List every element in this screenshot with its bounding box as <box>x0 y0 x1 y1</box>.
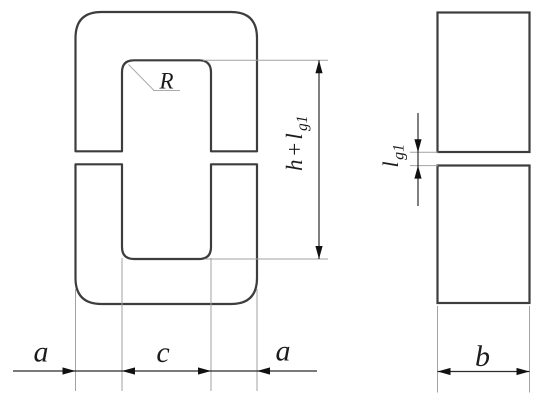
dimension line h+lg1 (vertical) <box>318 60 320 259</box>
extension line y=165.6 (gap bottom, side view) <box>410 165 438 167</box>
arrow at y=60.3 pointing up <box>315 60 322 73</box>
extension line y=259 (window bottom, to h+lg1 dim) <box>205 258 328 260</box>
extension line x=529.5 (side view right) <box>529 306 531 393</box>
extension line x=437.5 (side view left) <box>437 306 439 393</box>
extension line y=60.3 (window top, to h+lg1 dim) <box>203 59 328 61</box>
extension line y=152.2 (gap top, side view) <box>410 151 438 153</box>
arrow at x=437.5 pointing left <box>438 368 451 375</box>
arrow at x=529.5 pointing right <box>517 368 530 375</box>
svg-text:b: b <box>475 340 490 373</box>
svg-text:R: R <box>158 69 173 94</box>
extension line x=75.5 (outer left) <box>75 289 77 391</box>
svg-text:a: a <box>34 336 49 369</box>
dimension line b <box>438 371 530 373</box>
arrow at x=211 pointing right <box>198 367 211 374</box>
core half side view bottom rectangle <box>438 166 530 304</box>
arrow at x=257 pointing left <box>257 367 270 374</box>
core half E1 top (front view) <box>76 12 258 151</box>
extension line x=122 (inner left) <box>121 258 123 391</box>
arrow at y=259 pointing down <box>315 246 322 259</box>
leader underline for R <box>153 90 180 92</box>
core half E2 bottom (front view) <box>76 164 258 304</box>
arrow at x=122 pointing left <box>122 367 135 374</box>
svg-text:c: c <box>156 336 169 369</box>
extension line x=257 (outer right) <box>256 289 258 391</box>
arrow at y=152 pointing down <box>414 139 421 152</box>
arrow at x=75.5 pointing right <box>63 367 76 374</box>
dimension line a-c-a (bottom left) <box>13 370 317 372</box>
svg-text:lg1: lg1 <box>378 144 408 168</box>
extension line x=211 (inner right) <box>210 258 212 391</box>
dimension line lg1 (vertical, side view) <box>417 113 419 206</box>
leader line for R <box>129 65 155 91</box>
svg-text:a: a <box>276 335 291 368</box>
arrow at y=165.6 pointing up <box>414 166 421 179</box>
svg-text:h+lg1: h+lg1 <box>282 115 311 171</box>
core half side view top rectangle <box>438 13 530 153</box>
